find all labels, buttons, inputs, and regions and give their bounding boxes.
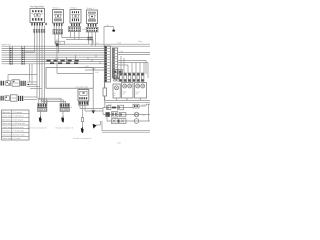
svg-text:Red wires: Red wires (2, 130, 10, 133)
svg-text:(+) G wire: (+) G wire (12, 137, 20, 140)
svg-text:Connect to connector B: Connect to connector B (28, 127, 48, 130)
svg-text:1 BR: 1 BR (119, 50, 124, 53)
svg-text:(+) R fuse box: (+) R fuse box (12, 130, 23, 133)
svg-text:Ignition sw: Ignition sw (2, 43, 12, 46)
svg-text:(-) B fuse bx: (-) B fuse bx (12, 111, 22, 114)
svg-text:Green wire: Green wire (2, 137, 11, 140)
svg-text:W Brown wire: W Brown wire (12, 126, 23, 129)
svg-text:(+) GR wire st: (+) GR wire st (12, 115, 24, 118)
svg-text:Fan motor relay: Fan motor relay (76, 86, 89, 89)
svg-text:Except to connector E: Except to connector E (56, 127, 74, 130)
svg-text:Green wire: Green wire (2, 115, 11, 118)
svg-text:Brown wire: Brown wire (2, 122, 11, 125)
svg-text:Turn Signal Relay: Turn Signal Relay (30, 5, 45, 8)
svg-text:(B) Drawn stnd: (B) Drawn stnd (12, 133, 24, 136)
svg-text:Relay 3: Relay 3 (87, 7, 95, 10)
svg-text:Gray wires: Gray wires (2, 133, 11, 136)
svg-text:Connect a connector B: Connect a connector B (73, 137, 92, 140)
svg-text:(+) BR wire osc: (+) BR wire osc (12, 122, 24, 125)
svg-text:Relay 1: Relay 1 (53, 6, 61, 9)
svg-text:de: de (114, 94, 116, 97)
svg-text:1 BR: 1 BR (117, 42, 122, 45)
svg-text:Blue wires: Blue wires (2, 118, 10, 121)
svg-text:1 W: 1 W (106, 24, 109, 27)
svg-text:(+) W fuse bx: (+) W fuse bx (12, 118, 23, 121)
svg-text:Yellow wire: Yellow wire (2, 126, 11, 129)
svg-text:Relay 2: Relay 2 (70, 6, 78, 9)
svg-text:Gray: Gray (138, 40, 142, 43)
svg-text:Black wire: Black wire (2, 111, 10, 114)
